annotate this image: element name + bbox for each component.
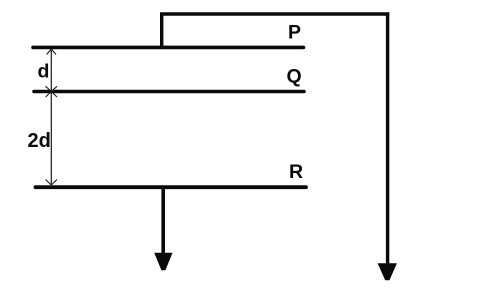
svg-text:2d: 2d xyxy=(28,130,51,152)
label Q xyxy=(287,66,302,88)
svg-text:P: P xyxy=(288,22,301,44)
label P xyxy=(288,22,301,44)
wire from plate P up to top rail xyxy=(160,13,163,46)
wire from plate R down xyxy=(161,188,165,254)
plate R xyxy=(36,185,307,189)
svg-text:R: R xyxy=(289,161,303,183)
label R xyxy=(289,161,303,183)
top wire xyxy=(160,12,389,15)
label d xyxy=(38,61,50,83)
dimension line 2d (between Q and R) xyxy=(46,92,57,186)
arrowhead on bottom-left wire xyxy=(154,253,172,270)
dimension line d (between P and Q) xyxy=(46,49,57,92)
right wire down from top rail xyxy=(386,12,389,264)
plate P xyxy=(33,46,304,50)
svg-text:Q: Q xyxy=(287,66,302,88)
plate Q xyxy=(34,90,304,94)
label 2d xyxy=(28,130,51,152)
arrowhead on right wire xyxy=(378,263,397,280)
svg-text:d: d xyxy=(38,61,50,83)
